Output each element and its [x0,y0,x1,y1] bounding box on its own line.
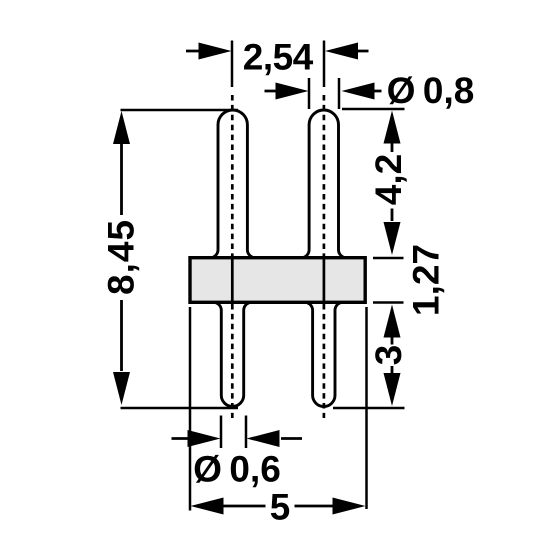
dim Ø0,6 extension lines [221,416,246,449]
pin 1 top shaft [210,110,255,258]
arrowhead 2,54 left [199,43,232,60]
label 3 [375,346,401,364]
dim 4,2 extension line top [342,108,405,111]
label 1,27 [413,246,445,314]
label 2,54 [244,44,313,76]
dim 1,27 extension line bottom (body bottom) [373,301,404,304]
arrowhead 5 left [191,498,224,515]
dim 3 extension line bottom (pin tip level right) [333,407,405,410]
dim 2,54 extension lines [232,41,324,88]
dim 5 dimension line [224,505,333,508]
dim Ø0,6 dimension lines [172,437,303,440]
arrowhead 2,54 right [325,43,358,60]
insulator body [190,258,365,303]
arrowhead Ø0,6 right [247,430,280,447]
arrowhead 3 down [384,373,401,406]
pin 2 centerline [323,95,326,255]
dim 4,2 dimension line [391,143,394,221]
dim 8,45 extension line bottom [121,407,239,410]
label 4,2 [375,155,407,204]
pin 2 bottom shaft [305,302,343,406]
dim 8,45 dimension line [120,144,123,371]
label 5 [271,494,289,520]
dim 8,45 extension line top [121,109,239,112]
arrowhead 5 right [333,498,366,515]
label Ø0,6 [195,455,280,487]
label Ø0,8 [388,76,473,108]
arrowhead Ø0,6 left [188,430,221,447]
label 8,45 [108,221,140,294]
arrowhead 8,45 up [113,111,130,144]
dim Ø0,8 dimension lines [265,90,382,93]
arrowhead Ø0,8 left [276,83,309,100]
dim 3 dimension line [391,337,394,373]
pin 2 top shaft [301,110,346,258]
pin 1 bottom shaft [213,302,251,406]
dim 5 extension lines [190,307,367,511]
arrowhead 4,2 down [384,222,401,255]
arrowhead 3 up [384,305,401,338]
pin 1 centerline [231,95,234,255]
dim Ø0,8 extension lines [309,78,339,109]
arrowhead Ø0,8 right [342,83,375,100]
arrowhead 4,2 up [384,111,401,144]
dim 2,54 dimension lines [186,50,369,53]
arrowhead 8,45 down [113,372,130,405]
dim 1,27 extension line top (body top) [373,257,404,260]
